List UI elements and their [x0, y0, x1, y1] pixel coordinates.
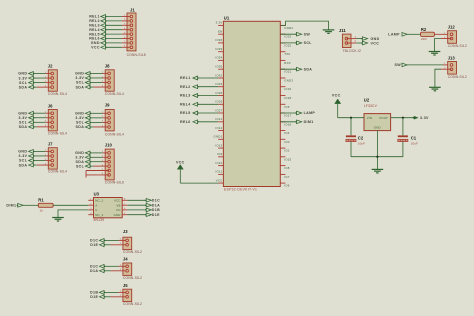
connector J12: [444, 25, 467, 49]
pin VCC: [218, 182, 223, 184]
svg-text:IO4: IO4: [284, 131, 289, 135]
svg-text:IO14: IO14: [215, 117, 222, 121]
pin IO2: [280, 147, 285, 149]
svg-text:U3: U3: [94, 192, 100, 197]
svg-text:CONN-SIL4: CONN-SIL4: [48, 132, 67, 136]
wire J12 pin2 to ground: [441, 38, 452, 40]
svg-text:SDA: SDA: [76, 125, 85, 129]
pin IO8: [280, 165, 285, 167]
svg-text:GND: GND: [18, 111, 27, 115]
svg-text:CONN-SIL2: CONN-SIL2: [448, 44, 467, 48]
svg-text:U2: U2: [364, 98, 370, 103]
svg-text:IO7: IO7: [284, 175, 289, 179]
pin IO26: [218, 103, 223, 105]
pin IO0: [280, 138, 285, 140]
pin IO9: [218, 156, 223, 158]
svg-text:IO22: IO22: [284, 43, 291, 47]
svg-text:TX0: TX0: [284, 52, 290, 56]
svg-text:IO33: IO33: [215, 82, 222, 86]
svg-text:C2: C2: [358, 136, 364, 141]
svg-text:10uF: 10uF: [411, 142, 418, 146]
wire J11 pin 2 to VCC: [345, 42, 348, 45]
connector J5: [90, 283, 142, 306]
svg-text:VCC: VCC: [371, 41, 380, 45]
svg-text:REL1: REL1: [89, 15, 100, 19]
svg-text:1k: 1k: [40, 208, 44, 212]
svg-text:U1: U1: [224, 16, 230, 21]
op-amp U3 6N139: [88, 192, 127, 223]
svg-text:IO2: IO2: [284, 149, 289, 153]
pin GND1: [218, 138, 223, 140]
svg-text:3.3V: 3.3V: [420, 116, 429, 120]
svg-text:C1: C1: [411, 136, 417, 141]
resistor R2: [421, 27, 435, 41]
svg-text:3.3V: 3.3V: [75, 116, 84, 120]
pin IO35: [218, 68, 223, 70]
ground J12: [429, 52, 441, 56]
svg-text:GND2: GND2: [284, 26, 293, 30]
svg-text:REL6: REL6: [180, 120, 191, 124]
svg-text:VIN: VIN: [367, 116, 372, 120]
ground J13: [429, 87, 441, 91]
svg-text:D1E: D1E: [152, 213, 160, 217]
wire R2 to J12: [434, 33, 451, 35]
svg-text:IO18: IO18: [284, 96, 291, 100]
pin IO13: [218, 147, 223, 149]
svg-text:VCC: VCC: [332, 93, 341, 97]
svg-text:GND: GND: [114, 213, 121, 217]
svg-text:IO36: IO36: [215, 38, 222, 42]
pin IO7: [280, 173, 285, 175]
svg-text:3.3V: 3.3V: [75, 76, 84, 80]
wire LAMP: [280, 112, 296, 114]
svg-text:CONN-SIL4: CONN-SIL4: [48, 170, 67, 174]
svg-text:A: A: [95, 203, 97, 207]
connector J8: [75, 64, 124, 96]
svg-text:D1C: D1C: [90, 265, 98, 269]
svg-text:J8: J8: [105, 64, 110, 69]
svg-text:IO21: IO21: [284, 70, 291, 74]
svg-text:VCC: VCC: [114, 198, 121, 202]
pin IO15: [280, 156, 285, 158]
svg-text:REL6: REL6: [89, 37, 100, 41]
pin IO25: [218, 95, 223, 97]
connector J6: [18, 103, 67, 135]
svg-text:CONN-SIL4: CONN-SIL4: [105, 132, 124, 136]
svg-text:CONN-SIL6: CONN-SIL6: [105, 181, 124, 185]
svg-text:3.3V: 3.3V: [216, 21, 223, 25]
junction C1 tap: [402, 117, 404, 119]
svg-text:RX0: RX0: [284, 61, 290, 65]
wire DIM1: [280, 121, 296, 123]
svg-text:REL4: REL4: [89, 28, 100, 32]
svg-text:REL1: REL1: [180, 76, 191, 80]
svg-text:J6: J6: [48, 103, 53, 108]
svg-text:6N139: 6N139: [94, 218, 105, 222]
svg-text:SCL: SCL: [19, 159, 28, 163]
svg-text:3.3V: 3.3V: [19, 116, 28, 120]
pin IO34: [218, 59, 223, 61]
svg-text:D1A: D1A: [152, 203, 160, 207]
ground GND2: [323, 30, 335, 34]
regulator U2 LF33CV: [364, 98, 391, 131]
pin IO12: [218, 130, 223, 132]
pin GND2: [280, 24, 285, 26]
svg-text:J13: J13: [448, 56, 456, 61]
svg-text:SW: SW: [395, 63, 402, 67]
svg-text:IO13: IO13: [215, 143, 222, 147]
svg-text:SCL: SCL: [19, 121, 28, 125]
svg-text:CONN-SIL2: CONN-SIL2: [123, 250, 142, 254]
pin IO22: [280, 42, 285, 44]
svg-text:D1E: D1E: [90, 295, 98, 299]
svg-text:3.3V: 3.3V: [19, 154, 28, 158]
pin RX0: [280, 59, 285, 61]
resistor R1: [38, 198, 53, 213]
svg-text:IO10: IO10: [215, 161, 222, 165]
svg-text:REL3: REL3: [180, 94, 191, 98]
wire U3 to node D1B: [127, 209, 146, 211]
wire U2 GND down: [376, 131, 378, 170]
connector J7: [18, 142, 67, 174]
pin IO10: [218, 165, 223, 167]
svg-text:GND: GND: [91, 41, 100, 45]
svg-text:REL3: REL3: [89, 24, 100, 28]
svg-text:J11: J11: [339, 28, 346, 33]
svg-text:J2: J2: [48, 64, 53, 69]
pin IO4: [280, 130, 285, 132]
connector J11 TBLOCK-I2: [339, 28, 380, 53]
pin IO6: [280, 182, 285, 184]
pin IO19: [280, 86, 285, 88]
connector J1: [89, 7, 146, 57]
svg-text:CONN-SIL4: CONN-SIL4: [48, 92, 67, 96]
svg-text:D1C: D1C: [90, 239, 98, 243]
svg-text:ESP32-DEVKIT-V1: ESP32-DEVKIT-V1: [224, 187, 257, 191]
svg-text:C: C: [95, 208, 97, 212]
wire R1 to U3 pin A: [53, 204, 88, 206]
capacitor C2: [346, 118, 365, 157]
svg-text:IO26: IO26: [215, 100, 222, 104]
svg-text:IO16: IO16: [284, 122, 291, 126]
svg-text:SCL: SCL: [304, 41, 313, 45]
svg-text:GND: GND: [18, 150, 27, 154]
svg-text:J9: J9: [105, 102, 110, 107]
wire U3 to node D1A: [127, 204, 146, 206]
svg-text:GND: GND: [75, 72, 84, 76]
pin IO39: [218, 51, 223, 53]
svg-text:J5: J5: [123, 283, 128, 288]
svg-text:IO17: IO17: [284, 114, 291, 118]
svg-text:J3: J3: [123, 229, 128, 234]
svg-text:CONN-SIL2: CONN-SIL2: [123, 276, 142, 280]
pin IO33: [218, 86, 223, 88]
pin IO23: [280, 33, 285, 35]
svg-text:VCC: VCC: [91, 46, 100, 50]
svg-text:IO39: IO39: [215, 47, 222, 51]
svg-text:IO19: IO19: [284, 87, 291, 91]
wire GND2 to ground: [280, 21, 328, 30]
svg-text:EN: EN: [218, 30, 222, 34]
svg-text:IO8: IO8: [284, 166, 289, 170]
svg-text:R2: R2: [421, 27, 427, 32]
svg-text:IO6: IO6: [284, 184, 289, 188]
svg-text:GND: GND: [371, 37, 380, 41]
svg-text:J1: J1: [130, 7, 135, 12]
wire VCC to VIN: [338, 117, 364, 119]
svg-text:IO34: IO34: [215, 56, 222, 60]
svg-text:NC_2: NC_2: [95, 213, 103, 217]
svg-text:GND1: GND1: [214, 135, 223, 139]
junction U2 gnd: [376, 156, 378, 158]
ground near R1: [52, 218, 64, 222]
svg-text:D1C: D1C: [152, 199, 160, 203]
svg-text:REL5: REL5: [89, 32, 100, 36]
connector J13: [444, 56, 467, 79]
wire J10 pins 5-6 tie: [86, 170, 109, 172]
svg-text:VB: VB: [116, 203, 120, 207]
svg-text:22R: 22R: [421, 37, 428, 41]
svg-text:GND: GND: [18, 72, 27, 76]
svg-text:J12: J12: [448, 25, 456, 30]
svg-text:CONN-SIL8: CONN-SIL8: [127, 53, 146, 57]
pin IO32: [218, 77, 223, 79]
pin IO11: [218, 173, 223, 175]
svg-text:SW: SW: [304, 32, 311, 36]
svg-text:D1B: D1B: [90, 291, 98, 295]
svg-text:CONN-SIL2: CONN-SIL2: [123, 302, 142, 306]
svg-text:10uF: 10uF: [358, 142, 365, 146]
wire LAMP to R2: [407, 33, 420, 35]
IC U1 ESP32-DEVKIT-V1: [223, 16, 280, 192]
wire ground bus: [351, 156, 403, 158]
svg-text:CONN-SIL2: CONN-SIL2: [448, 75, 467, 79]
svg-text:CONN-SIL4: CONN-SIL4: [105, 92, 124, 96]
svg-text:SDA: SDA: [19, 125, 28, 129]
svg-text:TBLOCK-I2: TBLOCK-I2: [342, 49, 361, 53]
wire DIM1 to R1: [23, 204, 38, 206]
svg-text:REL2: REL2: [89, 19, 100, 23]
svg-text:IO23: IO23: [284, 35, 291, 39]
pin IO16: [280, 121, 285, 123]
svg-text:REL5: REL5: [180, 111, 191, 115]
connector J4: [90, 257, 142, 281]
svg-text:R1: R1: [38, 198, 44, 203]
svg-text:SDA: SDA: [76, 160, 85, 164]
svg-text:J4: J4: [123, 257, 128, 262]
wire SW: [280, 33, 296, 35]
svg-text:GND: GND: [374, 125, 381, 129]
svg-text:IO35: IO35: [215, 65, 222, 69]
svg-text:3.3V: 3.3V: [75, 156, 84, 160]
svg-text:SDA: SDA: [19, 85, 28, 89]
svg-text:VOUT: VOUT: [379, 116, 388, 120]
svg-text:REL2: REL2: [180, 85, 191, 89]
pin GND3: [280, 77, 285, 79]
svg-text:D1B: D1B: [152, 208, 160, 212]
svg-text:D1A: D1A: [90, 269, 98, 273]
svg-text:LAMP: LAMP: [304, 111, 316, 115]
wire U3 to node D1C: [127, 199, 146, 201]
capacitor C1: [398, 118, 418, 157]
svg-text:VCC: VCC: [176, 160, 185, 164]
pin TX0: [280, 51, 285, 53]
svg-text:IO9: IO9: [217, 152, 222, 156]
svg-text:D1E: D1E: [90, 243, 98, 247]
svg-text:3.3V: 3.3V: [19, 76, 28, 80]
pin IO36: [218, 42, 223, 44]
ground U2: [372, 169, 384, 173]
connector J9: [75, 102, 124, 136]
wire ground to U3 pin C: [58, 210, 88, 217]
svg-text:LF33CV: LF33CV: [364, 104, 378, 108]
svg-text:DIM1: DIM1: [304, 120, 314, 124]
wire SW to J13: [407, 64, 443, 66]
svg-text:IO15: IO15: [284, 157, 291, 161]
pin IO17: [280, 112, 285, 114]
svg-text:IO27: IO27: [215, 108, 222, 112]
pin IO21: [280, 68, 285, 70]
wire SCL: [280, 42, 296, 44]
svg-text:J10: J10: [105, 143, 113, 148]
connector J2: [18, 64, 67, 96]
svg-text:J7: J7: [48, 142, 53, 147]
wire J11 pin 1 to GND: [345, 37, 348, 40]
svg-text:SCL: SCL: [19, 81, 28, 85]
svg-text:VCC: VCC: [216, 178, 223, 182]
svg-text:IO25: IO25: [215, 91, 222, 95]
pin IO5: [280, 103, 285, 105]
pin 3.3V: [218, 24, 223, 26]
svg-text:IO0: IO0: [284, 140, 289, 144]
pin IO14: [218, 121, 223, 123]
svg-text:IO11: IO11: [216, 170, 223, 174]
pin EN: [218, 33, 223, 35]
pin IO27: [218, 112, 223, 114]
svg-text:SCL: SCL: [76, 164, 85, 168]
wire SDA: [280, 68, 296, 70]
svg-text:NC_1: NC_1: [95, 198, 103, 202]
svg-text:VO: VO: [116, 208, 121, 212]
svg-text:DIM1: DIM1: [6, 204, 16, 208]
svg-text:SCL: SCL: [76, 81, 85, 85]
svg-text:IO32: IO32: [215, 73, 222, 77]
svg-text:SDA: SDA: [304, 67, 313, 71]
connector J10: [75, 143, 124, 185]
svg-text:SCL: SCL: [76, 121, 85, 125]
node 3.3V: [413, 117, 415, 119]
svg-text:SDA: SDA: [19, 163, 28, 167]
svg-text:LAMP: LAMP: [388, 33, 400, 37]
wire VOUT to 3.3V: [391, 117, 414, 119]
svg-text:GND: GND: [75, 112, 84, 116]
svg-text:GND: GND: [75, 151, 84, 155]
svg-text:GND3: GND3: [284, 79, 293, 83]
svg-text:IO5: IO5: [284, 105, 289, 109]
wire J13 pin2 to ground: [441, 68, 452, 70]
svg-text:REL4: REL4: [180, 103, 191, 107]
svg-text:IO12: IO12: [215, 126, 222, 130]
pin IO18: [280, 95, 285, 97]
junction C2 tap: [350, 117, 352, 119]
connector J3: [90, 229, 142, 254]
wire U3 to node D1E: [127, 214, 146, 216]
svg-text:SDA: SDA: [76, 85, 85, 89]
